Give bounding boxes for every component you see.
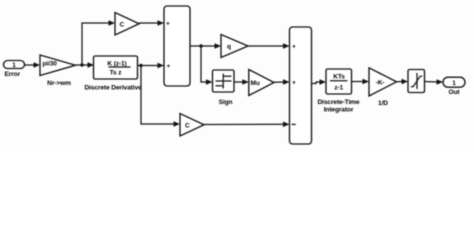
svg-text:C: C xyxy=(185,123,190,130)
wire Sum1 to gain q xyxy=(190,43,221,49)
svg-text:+: + xyxy=(166,21,170,28)
svg-text:Error: Error xyxy=(5,71,21,78)
block Saturation xyxy=(408,70,425,93)
wire gain C bottom to Sum2 input 3 xyxy=(204,122,290,128)
wire gain C top to Sum1 input 1 xyxy=(139,20,164,26)
wire junction down to gain C bottom xyxy=(141,66,180,127)
svg-text:+: + xyxy=(292,44,296,51)
wire gain 1/D to Saturation xyxy=(397,79,409,85)
svg-text:pi/30: pi/30 xyxy=(43,61,58,68)
wire junction up to gain C top xyxy=(82,20,115,65)
svg-text:KTs: KTs xyxy=(333,74,345,81)
svg-text:-K-: -K- xyxy=(376,79,385,86)
svg-text:Discrete-Time: Discrete-Time xyxy=(318,99,360,106)
svg-text:Mu: Mu xyxy=(251,80,260,87)
svg-text:Sign: Sign xyxy=(219,99,233,106)
svg-text:C: C xyxy=(120,22,125,29)
block Discrete Derivative K(z-1)/Tsz xyxy=(84,56,142,92)
wire Error to pi/30 xyxy=(25,62,41,68)
wire junction down to Sign xyxy=(201,46,213,85)
node junction after Sum1 xyxy=(199,44,202,47)
svg-text:+: + xyxy=(167,63,171,70)
node junction after Discrete Derivative xyxy=(139,64,142,67)
svg-text:1: 1 xyxy=(12,62,16,69)
sum Sum1 (++) xyxy=(164,6,190,86)
sum Sum2 (++-) xyxy=(290,27,312,144)
gain C bottom xyxy=(180,114,204,137)
wire gain q to Sum2 input 1 xyxy=(248,43,290,49)
gain -K- (1/D) xyxy=(369,68,397,107)
svg-text:z-1: z-1 xyxy=(334,85,343,92)
wire Sum2 to Discrete-Time Integrator xyxy=(312,79,327,85)
wire Saturation to outport xyxy=(425,79,444,85)
gain q xyxy=(221,35,248,58)
svg-text:+: + xyxy=(292,80,296,87)
wire Discrete-Time Integrator to gain 1/D xyxy=(352,79,370,85)
svg-text:Nr->wm: Nr->wm xyxy=(47,80,71,87)
svg-text:Integrator: Integrator xyxy=(324,107,354,114)
node junction after pi/30 xyxy=(80,63,83,66)
svg-text:Discrete Derivative: Discrete Derivative xyxy=(84,85,142,92)
svg-text:Ts z: Ts z xyxy=(110,70,123,77)
wire pi/30 to Discrete Derivative xyxy=(76,62,95,68)
gain pi/30 (Nr->wm) xyxy=(40,55,76,87)
outport 1 Out xyxy=(443,77,465,96)
gain Mu xyxy=(249,70,274,96)
wire Discrete Derivative to Sum1 input 2 xyxy=(138,63,165,69)
wire gain Mu to Sum2 input 2 xyxy=(274,79,290,85)
svg-text:q: q xyxy=(227,44,231,51)
block Sign xyxy=(213,70,235,106)
svg-text:1: 1 xyxy=(452,80,456,87)
svg-text:1/D: 1/D xyxy=(378,100,388,107)
gain C top xyxy=(115,13,139,36)
inport 1 Error xyxy=(4,61,25,79)
wire Sign to gain Mu xyxy=(234,79,249,85)
block Discrete-Time Integrator KTs/z-1 xyxy=(318,69,360,114)
svg-text:Out: Out xyxy=(449,89,461,96)
